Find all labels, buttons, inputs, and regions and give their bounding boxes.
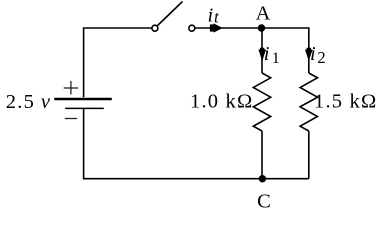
battery minus sign [65,118,77,120]
battery V1 negative plate [65,107,104,109]
switch SW1 pivot terminal circle [152,25,158,31]
wire battery minus down and bottom wire to right branch [84,108,309,178]
current arrow i_1 on left branch [258,48,266,62]
svg-text:C: C [257,190,271,212]
switch SW1 open terminal circle [189,25,195,31]
wire resistor R2 bottom to bottom wire [308,131,310,179]
node A junction dot [258,24,265,31]
resistor R2 zigzag [300,73,317,131]
battery V1 positive plate [54,98,112,100]
svg-text:it: it [208,4,221,26]
current arrow i_t on top wire [210,23,223,32]
svg-text:A: A [256,3,271,25]
wire resistor R1 bottom to node C [261,131,263,179]
wire top-left horizontal [84,28,152,97]
current arrow i_2 on right branch [305,48,313,62]
svg-text:2.5v: 2.5v [6,91,51,113]
svg-text:1.0 kΩ: 1.0 kΩ [190,91,253,113]
resistor R1 zigzag [253,73,270,131]
battery plus sign [64,81,78,95]
switch SW1 blade [155,2,183,29]
wire switch to top-right corner and down to resistor R2 [195,28,308,73]
svg-text:1.5 kΩ: 1.5 kΩ [314,91,377,113]
node C junction dot [259,175,266,182]
wire node A down to resistor R1 [261,28,263,73]
